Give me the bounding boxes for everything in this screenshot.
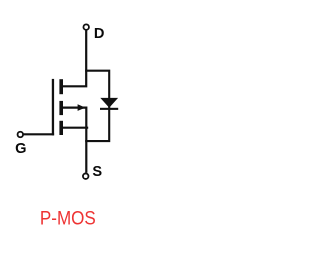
- svg-text:G: G: [15, 141, 26, 157]
- channel segment top (drain): [59, 79, 63, 94]
- wire: body stub with P-channel arrow, then down to source: [62, 108, 86, 173]
- terminal S (open circle): [83, 173, 89, 179]
- svg-text:S: S: [92, 164, 102, 180]
- diode D1 cathode bar: [100, 108, 118, 110]
- arrowhead (points right, P-MOS body): [78, 104, 86, 111]
- svg-text:P-MOS: P-MOS: [40, 208, 96, 230]
- channel segment bottom (source): [59, 121, 63, 135]
- wire: body-diode branch (right side loop): [85, 71, 109, 141]
- wire: source stub: [62, 127, 88, 129]
- svg-text:D: D: [94, 26, 105, 42]
- terminal D (open circle): [83, 24, 89, 30]
- diode D1 anode triangle: [100, 98, 118, 108]
- transistor Q1 gate bar: [52, 79, 54, 135]
- wire: drain lead from D terminal down to drain stub: [62, 30, 86, 86]
- channel segment middle (body): [59, 101, 63, 115]
- wire: gate lead from G terminal to gate bar: [24, 133, 55, 135]
- terminal G (open circle): [18, 132, 24, 138]
